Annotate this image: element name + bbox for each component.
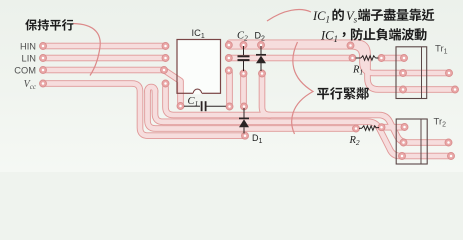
svg-text:COM: COM — [14, 66, 36, 76]
svg-text:HIN: HIN — [20, 41, 36, 51]
svg-text:LIN: LIN — [22, 54, 36, 64]
